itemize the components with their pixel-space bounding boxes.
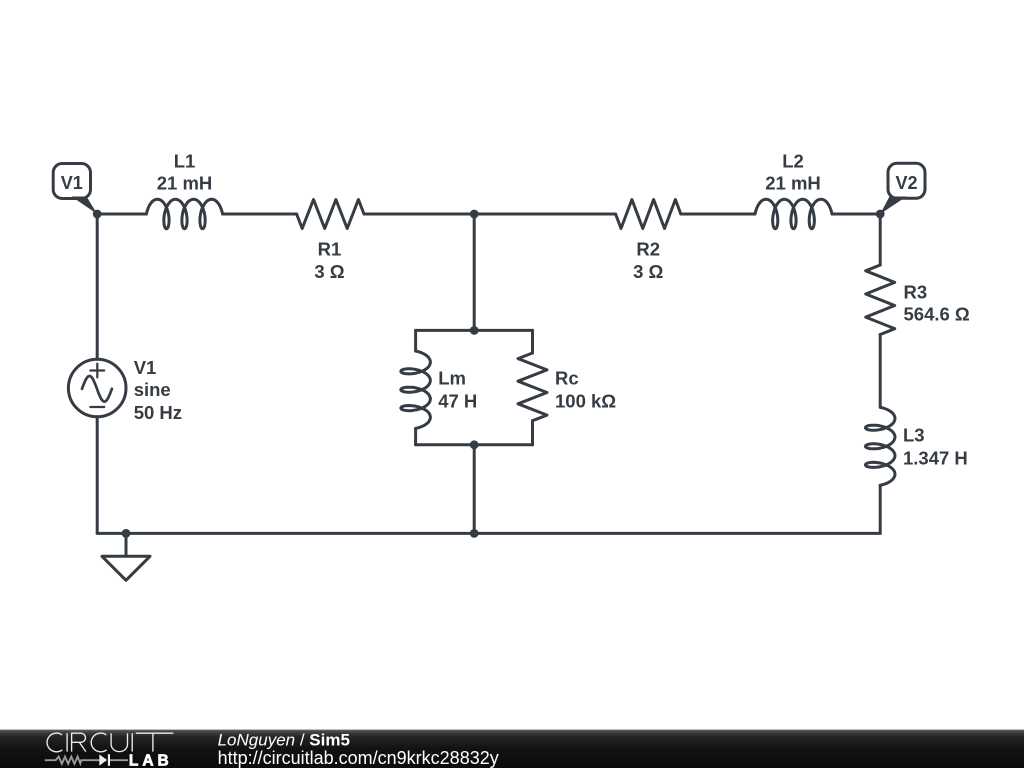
svg-text:3 Ω: 3 Ω [314,261,344,282]
logo diode cathode bar [108,754,110,766]
svg-text:L3: L3 [903,425,925,446]
logo letter C2 [91,733,106,752]
wire: bottom rail [97,532,880,535]
logo letter U [111,733,127,751]
wire: parallel box top rail [416,329,533,332]
node dot: junction box bottom [470,440,479,449]
svg-text:47 H: 47 H [438,390,477,411]
wire: Rc bottom lead [531,421,534,445]
logo letter R [72,733,86,751]
node dot: junction at V2 flag [876,210,885,219]
resistor R3 [866,265,895,335]
logo letter I1 [66,733,68,751]
voltage source V1 circle [68,359,126,417]
V1 minus sign [90,406,104,408]
wire: parallel box bottom rail [416,443,533,446]
svg-text:L2: L2 [782,150,804,171]
node flag V1 tail [72,197,98,215]
svg-text:1.347 H: 1.347 H [903,448,968,469]
logo diode output wire [110,759,128,761]
node dot: junction at V1 flag [93,210,102,219]
svg-text:R2: R2 [636,239,660,260]
svg-text:100 kΩ: 100 kΩ [555,390,616,411]
inductor Lm [401,351,431,428]
logo diode triangle [99,754,107,765]
svg-text:564.6 Ω: 564.6 Ω [904,304,970,325]
svg-text:21 mH: 21 mH [157,173,213,194]
resistor Rc [518,353,547,421]
svg-text:Lm: Lm [438,368,466,389]
svg-text:V1: V1 [134,357,157,378]
logo letter C1 [47,733,62,752]
svg-text:21 mH: 21 mH [765,173,821,194]
V1 sine symbol [82,376,112,402]
wire: middle node to R2 [474,213,615,216]
wire: Lm top lead [414,330,417,351]
node flag V2 tail [880,197,906,215]
node flag V1 box [53,164,90,199]
wire: L1 to R1 [223,213,297,216]
wire: top rail left segment [97,213,146,216]
resistor R2 [616,200,681,229]
wire: middle vertical bottom stub [473,445,476,534]
node dot: junction box top [470,326,479,335]
svg-text:50 Hz: 50 Hz [134,402,182,423]
inductor L3 [865,407,895,485]
logo resistor squiggle [45,757,100,764]
wire: Rc top lead [531,330,534,353]
node dot: junction bottom middle [470,529,479,538]
wire: middle vertical top [473,214,476,330]
svg-text:sine: sine [134,379,171,400]
svg-text:LAB: LAB [129,752,173,768]
svg-text:LoNguyen / Sim5: LoNguyen / Sim5 [218,731,350,750]
logo letter I2 [131,733,133,751]
svg-text:V2: V2 [895,173,917,193]
wire: Lm bottom lead [414,428,417,444]
ground symbol triangle [102,556,150,580]
resistor R1 [297,200,364,229]
svg-text:Rc: Rc [555,368,579,389]
svg-text:L1: L1 [174,150,196,171]
wire: R1 to middle node [364,213,474,216]
V1 plus sign [90,364,104,378]
logo letter T [136,733,174,751]
node dot: junction top middle [470,210,479,219]
wire: R3 to L3 [879,335,882,408]
wire: R2 to L2 [681,213,755,216]
inductor L1 [146,199,222,229]
svg-text:R3: R3 [904,282,928,303]
node dot: junction at ground [122,529,131,538]
svg-text:http://circuitlab.com/cn9krkc2: http://circuitlab.com/cn9krkc28832y [218,748,499,768]
wire: L3 to bottom rail [879,485,882,533]
node flag V2 box [888,163,925,198]
svg-text:R1: R1 [318,239,342,260]
wire: right vertical to R3 [879,214,882,265]
svg-text:3 Ω: 3 Ω [633,261,663,282]
wire: L2 to right node [832,213,880,216]
inductor L2 [755,199,832,229]
wire: left vertical below source [96,417,99,534]
wire: left vertical above source [96,214,99,359]
svg-text:V1: V1 [61,173,83,193]
ground stub wire [125,533,128,556]
